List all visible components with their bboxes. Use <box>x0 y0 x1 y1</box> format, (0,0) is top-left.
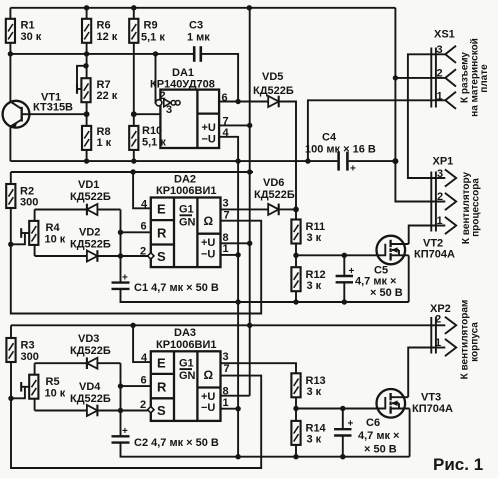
svg-text:100 мк × 16 В: 100 мк × 16 В <box>305 144 376 156</box>
svg-text:DA2: DA2 <box>174 173 196 185</box>
svg-text:3 к: 3 к <box>307 280 322 292</box>
junction dots section3 <box>8 323 345 460</box>
resistor R10 <box>129 114 166 161</box>
diode VD1 КД522Б <box>35 179 121 215</box>
svg-text:+U: +U <box>202 122 216 134</box>
svg-text:× 50 В: × 50 В <box>364 444 397 456</box>
svg-text:КР1006ВИ1: КР1006ВИ1 <box>156 185 217 197</box>
svg-text:300: 300 <box>21 351 39 363</box>
svg-text:+: + <box>122 273 128 284</box>
svg-text:R3: R3 <box>21 340 35 352</box>
resistor R4 (trimmer) <box>11 210 66 257</box>
svg-text:C1 4,7 мк × 50 В: C1 4,7 мк × 50 В <box>134 282 219 294</box>
junction dots section1 <box>8 5 399 164</box>
wire +12V rail section3 to XP2 pin2 <box>11 324 445 326</box>
wire VT2 source to gnd <box>408 255 410 302</box>
svg-text:R4: R4 <box>46 222 61 234</box>
svg-text:КД522Б: КД522Б <box>70 345 111 357</box>
svg-text:S: S <box>157 403 166 418</box>
XS1 pin 3 socket <box>437 44 457 63</box>
svg-text:+U: +U <box>201 391 215 403</box>
wire GND rail section1 <box>10 160 337 162</box>
wire gate line VT3 <box>296 408 377 410</box>
svg-text:1: 1 <box>223 397 229 409</box>
svg-text:7: 7 <box>224 209 230 221</box>
svg-text:5,1 к: 5,1 к <box>141 32 165 44</box>
svg-text:GN: GN <box>179 370 196 382</box>
svg-text:КП704А: КП704А <box>412 403 453 415</box>
label to motherboard connector <box>460 38 491 117</box>
wire timing node vertical section3 <box>120 363 122 436</box>
svg-text:R: R <box>157 226 167 241</box>
wire DA1 pin3 input <box>134 113 161 115</box>
svg-text:КР1006ВИ1: КР1006ВИ1 <box>156 339 217 351</box>
wire DA2 pin6 R <box>121 231 151 233</box>
svg-text:КД522Б: КД522Б <box>253 85 294 97</box>
svg-text:G1: G1 <box>179 357 194 369</box>
svg-text:+: + <box>122 426 128 437</box>
resistor R7 (trimmer) <box>77 54 118 114</box>
wire XS1 pin1 gnd riser <box>308 100 445 161</box>
svg-text:30 к: 30 к <box>21 31 42 43</box>
svg-text:8: 8 <box>223 232 229 244</box>
wire DA3 pin4 riser <box>133 325 151 362</box>
svg-text:−U: −U <box>201 402 215 414</box>
wire +12V bus to XP1 pin2 <box>395 8 445 202</box>
connector XS1 body <box>431 29 454 108</box>
XP1 pin 3 <box>437 168 456 187</box>
wire DA2 pin4 riser <box>133 172 151 208</box>
svg-text:VD3: VD3 <box>78 333 99 345</box>
svg-text:КТ315В: КТ315В <box>33 101 73 113</box>
svg-text:КР140УД708: КР140УД708 <box>150 79 215 91</box>
node rail y54 <box>10 53 193 55</box>
svg-text:VD6: VD6 <box>263 177 284 189</box>
svg-text:−U: −U <box>201 248 215 260</box>
svg-text:DA3: DA3 <box>174 327 196 339</box>
svg-text:корпуса: корпуса <box>470 322 481 362</box>
svg-text:Ω: Ω <box>204 214 214 228</box>
capacitor C6 electrolytic <box>334 409 399 457</box>
svg-text:S: S <box>157 249 166 264</box>
svg-text:3 к: 3 к <box>307 434 322 446</box>
wire VD5 cathode down node X <box>279 102 296 220</box>
XS1 pin 1 socket <box>437 90 457 109</box>
capacitor C3 <box>187 20 238 102</box>
svg-text:1: 1 <box>437 215 443 227</box>
diode VD2 КД522Б <box>35 226 148 261</box>
svg-text:плате: плате <box>479 64 490 93</box>
resistor R2 <box>6 172 38 244</box>
capacitor C4 <box>305 132 395 175</box>
wire gate line VT2 <box>296 254 377 256</box>
label to CPU fan <box>461 171 482 244</box>
svg-text:КД522Б: КД522Б <box>70 393 111 405</box>
svg-text:5,1 к: 5,1 к <box>142 136 166 148</box>
svg-text:12 к: 12 к <box>97 31 118 43</box>
wire VT3 drain to XP2 pin1 <box>408 348 445 398</box>
svg-text:1: 1 <box>435 337 441 349</box>
resistor R5 (trimmer) <box>11 363 66 410</box>
connector XP1 body <box>431 156 453 232</box>
svg-text:R10: R10 <box>142 125 162 137</box>
wire +12V rail section2 <box>11 171 253 173</box>
svg-text:10 к: 10 к <box>45 388 66 400</box>
resistor R8 <box>82 114 112 161</box>
wire DA2 pin8 <box>221 242 250 244</box>
capacitor C5 electrolytic <box>336 255 403 302</box>
diode VD6 КД522Б <box>254 177 296 215</box>
wire DA3 pin8 <box>221 395 250 397</box>
wire DA1 pin4 gnd drop <box>219 137 238 161</box>
svg-text:3: 3 <box>223 197 229 209</box>
resistor R3 <box>6 325 38 398</box>
wire R2 node to DA2 pin7 rail <box>11 221 261 314</box>
transistor VT2 КП704А <box>377 236 455 265</box>
svg-text:VD5: VD5 <box>262 71 283 83</box>
svg-text:1: 1 <box>437 90 443 102</box>
svg-text:2: 2 <box>140 399 146 411</box>
svg-text:300: 300 <box>20 197 38 209</box>
svg-text:2: 2 <box>140 245 146 257</box>
svg-text:R2: R2 <box>20 185 34 197</box>
svg-text:4,7 мк ×: 4,7 мк × <box>355 276 396 288</box>
svg-text:VD4: VD4 <box>79 381 101 393</box>
svg-text:3: 3 <box>166 104 172 116</box>
svg-text:XS1: XS1 <box>434 29 455 41</box>
transistor VT1 <box>3 91 73 129</box>
diode VD4 КД522Б <box>35 381 148 416</box>
resistor R6 <box>82 8 118 54</box>
svg-text:C2 4,7 мк × 50 В: C2 4,7 мк × 50 В <box>134 437 219 449</box>
svg-text:22 к: 22 к <box>97 90 118 102</box>
diode VD5 КД522Б <box>253 71 294 107</box>
svg-text:C3: C3 <box>189 20 203 32</box>
svg-text:XP1: XP1 <box>433 156 454 168</box>
wire XS1 pin2 <box>395 77 445 79</box>
svg-text:2: 2 <box>437 191 443 203</box>
svg-text:6: 6 <box>141 374 147 386</box>
svg-text:Рис. 1: Рис. 1 <box>433 455 483 474</box>
wire +12V vertical feed <box>249 8 251 396</box>
svg-text:2: 2 <box>435 313 441 325</box>
svg-text:10 к: 10 к <box>45 233 66 245</box>
svg-text:7: 7 <box>224 363 230 375</box>
wire DA1 pin6 output <box>219 101 268 103</box>
wire DA3 pin3 output to R13 <box>221 363 297 373</box>
svg-text:процессора: процессора <box>471 178 482 237</box>
svg-text:VT3: VT3 <box>421 392 441 404</box>
wire +12V top rail <box>10 7 395 9</box>
svg-text:КП704А: КП704А <box>414 248 455 260</box>
svg-text:DA1: DA1 <box>172 67 194 79</box>
wire VT2 drain to XP1 pin1 <box>409 226 446 245</box>
XP2 pin 1 <box>435 337 456 356</box>
svg-text:2: 2 <box>437 68 443 80</box>
svg-text:E: E <box>157 202 166 217</box>
svg-text:R1: R1 <box>21 20 35 32</box>
svg-text:R9: R9 <box>144 20 158 32</box>
svg-text:КД522Б: КД522Б <box>254 189 295 201</box>
svg-text:C4: C4 <box>322 132 337 144</box>
resistor R9 <box>129 8 165 114</box>
svg-text:R8: R8 <box>97 126 111 138</box>
svg-text:1 к: 1 к <box>97 137 112 149</box>
transistor VT3 КП704А <box>377 389 453 418</box>
svg-text:−U: −U <box>202 133 216 145</box>
label to case fans <box>460 300 481 380</box>
wire VT1 base <box>29 113 86 115</box>
svg-text:+: + <box>349 266 355 277</box>
wire XS1 pin3 to XP1 pin3 <box>408 54 445 178</box>
diode VD3 КД522Б <box>35 333 121 369</box>
svg-text:R7: R7 <box>97 79 111 91</box>
svg-text:1 мк: 1 мк <box>187 32 210 44</box>
capacitor C1 electrolytic <box>112 273 409 303</box>
XP2 pin 2 <box>435 313 456 334</box>
XS1 pin 2 socket <box>437 68 457 87</box>
svg-text:3: 3 <box>437 44 443 56</box>
svg-text:+: + <box>350 164 356 175</box>
svg-text:3: 3 <box>437 168 443 180</box>
svg-text:G1: G1 <box>179 204 194 216</box>
wire VT1 collector <box>9 54 11 102</box>
svg-text:Ω: Ω <box>204 368 214 382</box>
capacitor C2 electrolytic <box>112 426 410 457</box>
XP1 pin 1 <box>437 215 457 234</box>
svg-text:VD2: VD2 <box>79 226 100 238</box>
svg-text:R5: R5 <box>46 376 60 388</box>
svg-text:R6: R6 <box>97 20 111 32</box>
wire DA1 pin7 +12 <box>219 124 250 126</box>
resistor R13 <box>291 373 325 408</box>
junction dots section2 <box>8 169 347 304</box>
wire timing node vertical <box>120 210 122 283</box>
wire VT3 source to gnd <box>409 409 411 457</box>
svg-text:× 50 В: × 50 В <box>370 287 403 299</box>
svg-text:4,7 мк ×: 4,7 мк × <box>358 430 399 442</box>
timer DA3 КР1006ВИ1 <box>140 327 230 421</box>
svg-text:R: R <box>157 379 167 394</box>
svg-text:VD1: VD1 <box>78 179 99 191</box>
svg-text:3 к: 3 к <box>307 386 322 398</box>
connector XP2 body <box>430 303 451 354</box>
svg-text:C6: C6 <box>366 417 380 429</box>
svg-text:1: 1 <box>223 243 229 255</box>
resistor R11 <box>291 220 325 256</box>
timer DA2 КР1006ВИ1 <box>140 173 230 267</box>
svg-text:GN: GN <box>179 216 196 228</box>
svg-text:+: + <box>348 419 354 430</box>
wire DA3 pin1 gnd <box>221 408 239 410</box>
wire DA2 pin1 gnd <box>221 254 239 256</box>
resistor R12 <box>291 255 325 302</box>
op-amp DA1 КР140УД708 <box>150 67 230 148</box>
wire DA1 pin2 from rail <box>155 54 157 103</box>
svg-text:3: 3 <box>223 351 229 363</box>
svg-text:3 к: 3 к <box>307 232 322 244</box>
svg-text:КД522Б: КД522Б <box>70 238 111 250</box>
svg-text:6: 6 <box>141 221 147 233</box>
svg-text:+U: +U <box>201 237 215 249</box>
resistor R14 <box>291 409 326 457</box>
svg-text:E: E <box>157 355 166 370</box>
XP1 pin 2 <box>437 191 456 210</box>
wire GND vertical <box>237 161 239 457</box>
wire DA2 pin3 output <box>221 208 269 210</box>
wire R3 node to DA3 pin7 rail <box>11 376 261 468</box>
svg-text:2: 2 <box>160 90 166 102</box>
resistor R1 <box>6 8 42 54</box>
svg-text:КД522Б: КД522Б <box>70 191 111 203</box>
wire VT1 emitter to gnd rail <box>9 127 11 162</box>
wire DA3 pin6 R <box>121 385 151 387</box>
